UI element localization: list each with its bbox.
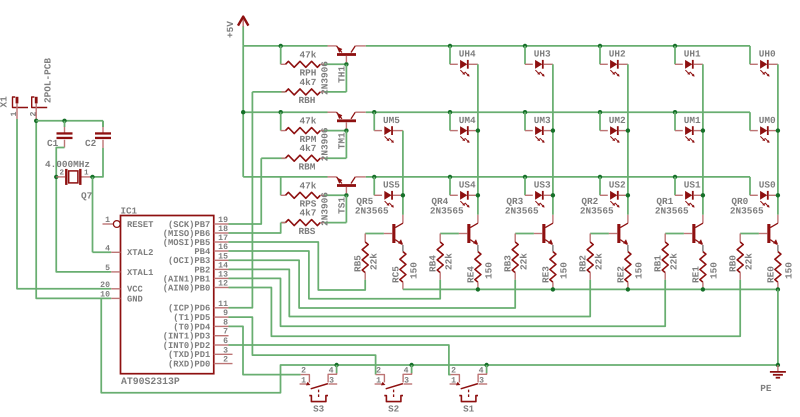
svg-text:1: 1: [105, 216, 110, 225]
svg-text:2N3565: 2N3565: [730, 206, 764, 217]
svg-text:17: 17: [218, 234, 228, 243]
svg-text:22k: 22k: [444, 253, 455, 270]
svg-text:US0: US0: [759, 180, 776, 191]
svg-text:TS1: TS1: [337, 197, 348, 214]
svg-text:S3: S3: [313, 404, 325, 415]
svg-text:15: 15: [218, 252, 228, 261]
svg-text:150: 150: [708, 262, 719, 279]
svg-text:18: 18: [218, 225, 228, 234]
svg-text:X1: X1: [0, 96, 10, 108]
svg-text:4k7: 4k7: [300, 208, 317, 219]
svg-text:16: 16: [218, 243, 228, 252]
svg-text:150: 150: [633, 262, 644, 279]
svg-text:22k: 22k: [369, 253, 380, 270]
svg-text:10: 10: [100, 290, 110, 299]
svg-text:RB4: RB4: [427, 255, 438, 272]
svg-text:RE0: RE0: [765, 266, 776, 283]
svg-text:11: 11: [218, 300, 228, 309]
svg-text:UH3: UH3: [534, 49, 551, 60]
svg-text:2: 2: [451, 366, 456, 375]
svg-text:VCC: VCC: [127, 285, 144, 295]
svg-text:4: 4: [105, 244, 110, 253]
svg-text:UM5: UM5: [383, 115, 400, 126]
svg-text:47k: 47k: [300, 116, 317, 127]
svg-text:22k: 22k: [744, 253, 755, 270]
svg-text:RB0: RB0: [727, 255, 738, 272]
svg-text:2: 2: [301, 366, 306, 375]
svg-text:4: 4: [404, 366, 409, 375]
svg-text:RBH: RBH: [299, 95, 316, 106]
svg-text:150: 150: [783, 262, 794, 279]
svg-text:4: 4: [329, 366, 334, 375]
svg-text:+5V: +5V: [225, 21, 236, 38]
svg-text:(RXD)PD0: (RXD)PD0: [168, 360, 210, 370]
svg-text:RB3: RB3: [502, 255, 513, 272]
svg-text:RBS: RBS: [299, 226, 316, 237]
svg-text:2N3565: 2N3565: [580, 206, 614, 217]
svg-text:2: 2: [223, 356, 228, 365]
svg-text:22k: 22k: [519, 253, 530, 270]
svg-text:14: 14: [218, 261, 228, 270]
svg-text:2: 2: [60, 169, 65, 178]
svg-text:UM4: UM4: [459, 115, 476, 126]
svg-text:RE2: RE2: [615, 266, 626, 283]
svg-text:RB1: RB1: [652, 255, 663, 272]
svg-text:RBM: RBM: [299, 161, 316, 172]
svg-text:US4: US4: [459, 180, 476, 191]
svg-text:3: 3: [404, 376, 409, 385]
svg-text:XTAL1: XTAL1: [127, 268, 153, 278]
svg-text:2N3565: 2N3565: [655, 206, 689, 217]
svg-text:XTAL2: XTAL2: [127, 248, 153, 258]
svg-text:C2: C2: [85, 138, 97, 149]
svg-text:150: 150: [558, 262, 569, 279]
svg-text:47k: 47k: [300, 180, 317, 191]
svg-text:1: 1: [451, 376, 456, 385]
svg-text:PE: PE: [760, 383, 772, 394]
svg-text:20: 20: [100, 281, 110, 290]
svg-text:2POL-PCB: 2POL-PCB: [43, 58, 54, 103]
svg-text:RB5: RB5: [352, 255, 363, 272]
svg-text:4.000MHz: 4.000MHz: [45, 159, 90, 170]
svg-text:3: 3: [329, 376, 334, 385]
svg-text:US3: US3: [534, 180, 551, 191]
svg-text:(AIN0)PB0: (AIN0)PB0: [163, 283, 211, 293]
svg-text:2: 2: [376, 366, 381, 375]
svg-text:UM2: UM2: [609, 115, 626, 126]
svg-text:9: 9: [223, 309, 228, 318]
svg-text:2N3906: 2N3906: [320, 127, 331, 161]
svg-text:22k: 22k: [594, 253, 605, 270]
svg-text:RC5: RC5: [390, 266, 401, 283]
svg-text:IC1: IC1: [121, 206, 138, 217]
svg-text:19: 19: [218, 216, 228, 225]
svg-text:150: 150: [483, 262, 494, 279]
svg-text:RE1: RE1: [690, 266, 701, 283]
svg-text:1: 1: [301, 376, 306, 385]
svg-text:22k: 22k: [669, 253, 680, 270]
svg-text:1: 1: [376, 376, 381, 385]
svg-text:47k: 47k: [300, 49, 317, 60]
svg-text:UH2: UH2: [609, 49, 626, 60]
svg-text:5: 5: [105, 264, 110, 273]
svg-text:150: 150: [408, 262, 419, 279]
svg-text:UH4: UH4: [459, 49, 476, 60]
svg-text:8: 8: [223, 318, 228, 327]
svg-text:2N3906: 2N3906: [320, 61, 331, 95]
svg-text:S1: S1: [463, 404, 475, 415]
svg-text:Q7: Q7: [81, 191, 92, 202]
svg-text:1: 1: [84, 170, 89, 178]
svg-text:UH0: UH0: [759, 49, 776, 60]
svg-text:12: 12: [218, 280, 228, 289]
svg-text:US1: US1: [684, 180, 701, 191]
svg-text:3: 3: [223, 346, 228, 355]
svg-text:6: 6: [223, 337, 228, 346]
svg-text:RE3: RE3: [540, 266, 551, 283]
svg-text:S2: S2: [388, 404, 399, 415]
svg-text:AT90S2313P: AT90S2313P: [121, 376, 180, 387]
svg-text:3: 3: [479, 376, 484, 385]
svg-text:1: 1: [10, 112, 19, 117]
svg-text:UM1: UM1: [684, 115, 701, 126]
svg-text:4k7: 4k7: [300, 77, 317, 88]
svg-text:4k7: 4k7: [300, 143, 317, 154]
svg-text:2: 2: [29, 112, 38, 117]
svg-text:RB2: RB2: [577, 255, 588, 272]
svg-text:2N3565: 2N3565: [355, 206, 389, 217]
svg-text:TH1: TH1: [337, 66, 348, 83]
svg-text:US5: US5: [383, 180, 400, 191]
svg-text:RESET: RESET: [127, 220, 154, 230]
svg-text:RE4: RE4: [465, 266, 476, 283]
svg-text:TM1: TM1: [337, 132, 348, 149]
svg-text:UM3: UM3: [534, 115, 551, 126]
svg-text:UM0: UM0: [759, 115, 776, 126]
svg-text:4: 4: [479, 366, 484, 375]
svg-text:2N3565: 2N3565: [505, 206, 539, 217]
svg-text:2N3565: 2N3565: [430, 206, 464, 217]
svg-text:2N3906: 2N3906: [320, 192, 331, 226]
svg-text:7: 7: [223, 328, 228, 337]
svg-text:US2: US2: [609, 180, 626, 191]
svg-text:GND: GND: [127, 294, 143, 304]
svg-text:13: 13: [218, 270, 228, 279]
svg-text:UH1: UH1: [684, 49, 701, 60]
